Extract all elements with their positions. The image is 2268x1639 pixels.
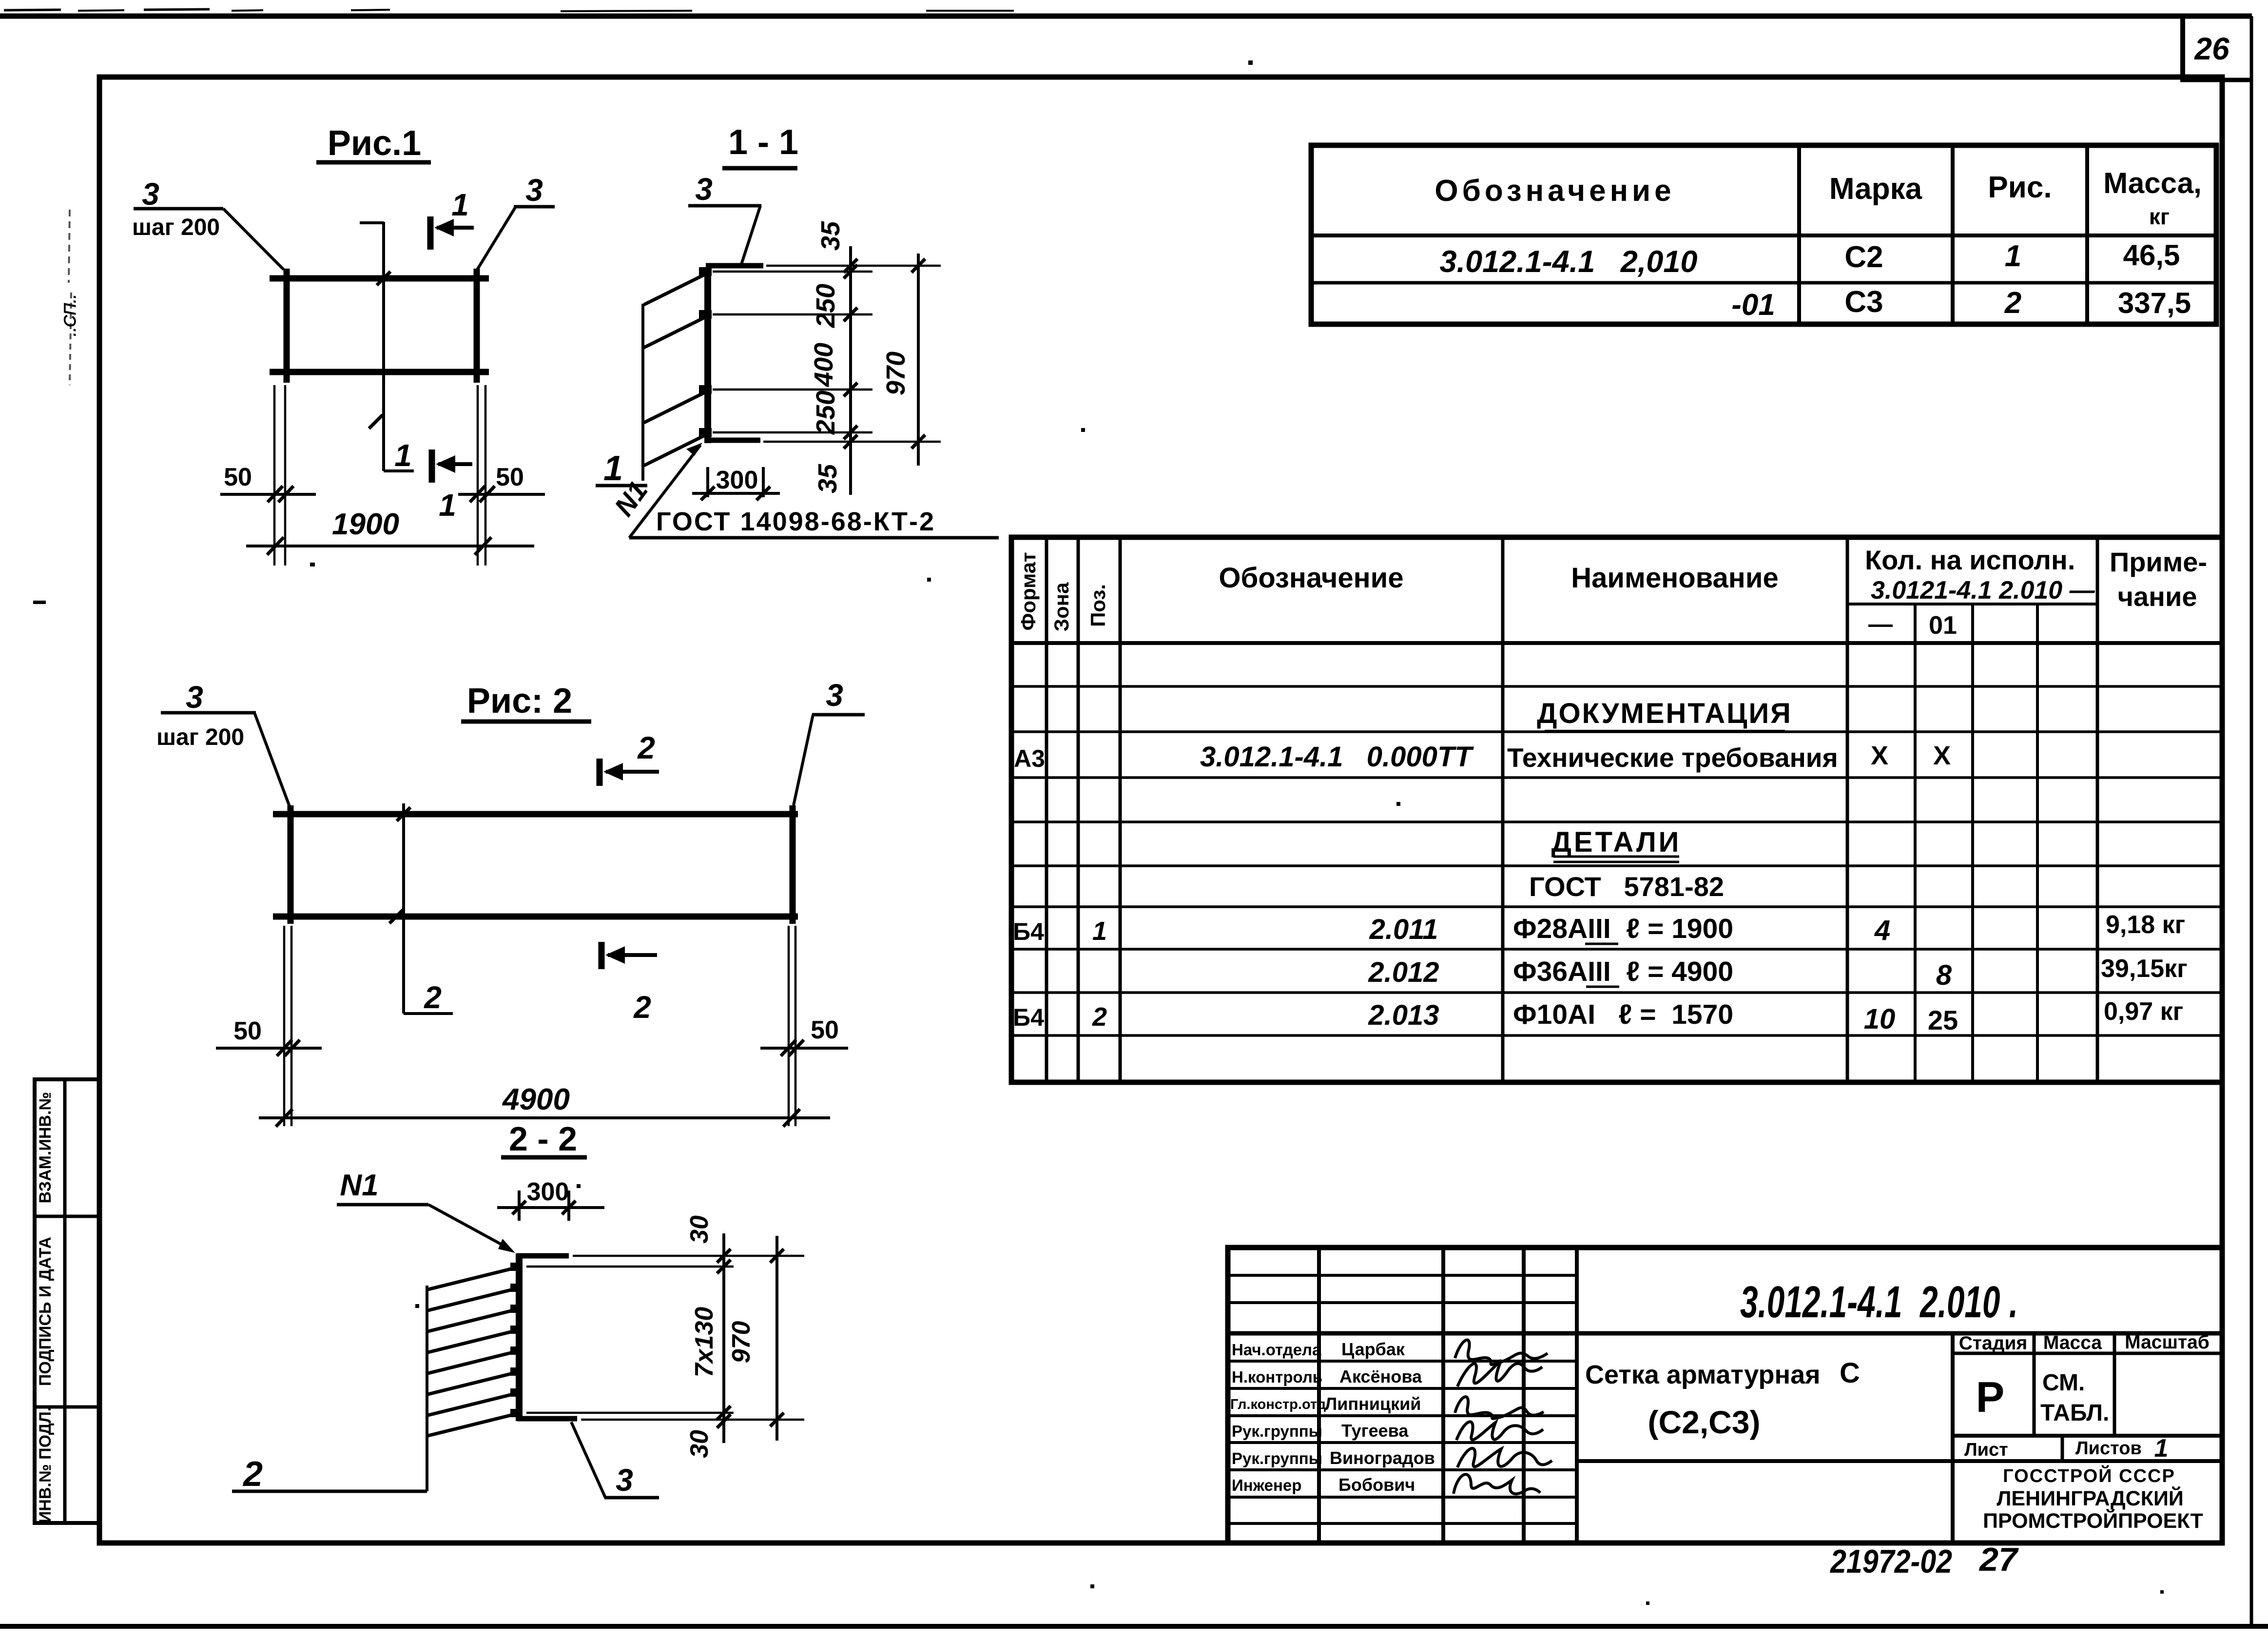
svg-text:337,5: 337,5 [2118,287,2191,319]
svg-text:С3: С3 [1844,285,1883,319]
svg-text:Лист: Лист [1964,1440,2008,1460]
svg-text:2 - 2: 2 - 2 [509,1120,577,1158]
svg-text:2.012: 2.012 [1368,956,1439,988]
svg-text:ИНВ.№ ПОДЛ.: ИНВ.№ ПОДЛ. [36,1407,55,1523]
svg-text:400: 400 [809,343,838,387]
svg-text:3.012.1-4.1 2,010: 3.012.1-4.1 2,010 [1440,245,1698,279]
svg-text:ДЕТАЛИ: ДЕТАЛИ [1551,826,1682,858]
svg-text:ГОСТ 14098-68-КТ-2: ГОСТ 14098-68-КТ-2 [656,507,935,536]
svg-text:1 - 1: 1 - 1 [728,123,798,162]
svg-text:Ф28АIII ℓ = 1900: Ф28АIII ℓ = 1900 [1513,913,1733,944]
svg-text:ГОСТ 5781-82: ГОСТ 5781-82 [1529,871,1724,902]
svg-text:Рис.: Рис. [1988,171,2052,204]
svg-text:1: 1 [1092,917,1107,946]
svg-text:50: 50 [224,463,252,491]
svg-text:Царбак: Царбак [1341,1339,1405,1359]
svg-text:чание: чание [2117,581,2197,612]
svg-text:ГОССТРОЙ СССР: ГОССТРОЙ СССР [2003,1464,2175,1486]
svg-text:1: 1 [603,449,623,488]
svg-text:Рис.1: Рис.1 [328,124,421,163]
svg-text:35: 35 [813,464,842,493]
svg-text:Тугеева: Тугеева [1341,1421,1409,1441]
svg-text:А3: А3 [1014,745,1045,772]
svg-text:ВЗАМ.ИНВ.№: ВЗАМ.ИНВ.№ [36,1092,55,1204]
svg-text:Поз.: Поз. [1086,584,1109,627]
svg-text:1: 1 [2154,1434,2169,1463]
svg-text:0,97 кг: 0,97 кг [2104,997,2183,1026]
svg-text:Б4: Б4 [1013,918,1044,945]
svg-text:3: 3 [142,176,159,212]
svg-text:С: С [1840,1357,1860,1389]
svg-text:3.012.1-4.1 2.010 .: 3.012.1-4.1 2.010 . [1740,1277,2018,1327]
svg-text:01: 01 [1929,611,1957,640]
svg-text:46,5: 46,5 [2123,239,2180,272]
svg-text:—: — [1868,610,1893,638]
svg-text:1: 1 [439,488,456,523]
svg-text:2.011: 2.011 [1369,914,1438,945]
svg-text:3: 3 [525,173,543,208]
svg-text:Х: Х [1933,741,1951,770]
svg-text:Р: Р [1976,1373,2005,1421]
svg-text:Наименование: Наименование [1571,562,1779,594]
svg-text:ДОКУМЕНТАЦИЯ: ДОКУМЕНТАЦИЯ [1537,698,1792,729]
svg-text:Нач.отдела: Нач.отдела [1232,1341,1321,1359]
svg-text:2: 2 [2004,286,2021,320]
svg-text:2.013: 2.013 [1368,999,1439,1031]
svg-text:Инженер: Инженер [1232,1476,1301,1494]
svg-text:Приме-: Приме- [2110,546,2207,577]
svg-text:300: 300 [716,466,758,494]
svg-text:39,15кг: 39,15кг [2101,955,2188,983]
svg-text:Стадия: Стадия [1959,1333,2027,1354]
svg-text:50: 50 [811,1016,839,1044]
svg-text:4900: 4900 [502,1083,570,1116]
svg-text:кг: кг [2149,204,2170,229]
svg-text:8: 8 [1936,959,1952,991]
svg-text:Рис: 2: Рис: 2 [467,682,572,721]
svg-text:1: 1 [451,187,469,222]
svg-text:Сетка арматурная: Сетка арматурная [1585,1360,1821,1389]
svg-text:Технические требования: Технические требования [1507,742,1838,773]
svg-text:ЛЕНИНГРАДСКИЙ: ЛЕНИНГРАДСКИЙ [1997,1486,2184,1510]
svg-text:7x130: 7x130 [690,1307,718,1378]
svg-text:25: 25 [1928,1005,1958,1035]
svg-text:N1: N1 [340,1169,378,1202]
svg-text:Липницкий: Липницкий [1325,1394,1421,1414]
svg-text:10: 10 [1864,1003,1896,1035]
svg-text:Ф36АIII ℓ = 4900: Ф36АIII ℓ = 4900 [1513,956,1733,987]
svg-text:Масса: Масса [2043,1332,2102,1353]
svg-text:26: 26 [2194,31,2229,66]
svg-text:Масса,: Масса, [2103,167,2202,199]
svg-text:27: 27 [1978,1541,2019,1578]
svg-text:2: 2 [424,980,442,1015]
svg-text:35: 35 [816,221,845,251]
svg-text:Гл.констр.отд: Гл.констр.отд [1230,1397,1326,1412]
svg-text:50: 50 [496,463,524,491]
svg-text:Бобович: Бобович [1338,1475,1415,1495]
svg-text:970: 970 [881,351,911,395]
svg-text:(С2,С3): (С2,С3) [1648,1404,1760,1440]
svg-text:3: 3 [186,680,203,715]
svg-text:4: 4 [1874,915,1890,946]
svg-text:50: 50 [233,1017,262,1045]
svg-text:Н.контроль: Н.контроль [1232,1368,1322,1386]
svg-text:Листов: Листов [2075,1438,2142,1459]
svg-text:Виноградов: Виноградов [1330,1448,1435,1468]
svg-text:..СП..: ..СП.. [61,294,79,336]
svg-text:Рук.группы: Рук.группы [1232,1449,1322,1467]
svg-text:2: 2 [242,1455,263,1494]
svg-text:250: 250 [811,284,840,328]
svg-text:3: 3 [695,172,713,207]
svg-text:3: 3 [826,678,843,713]
svg-text:ПОДПИСЬ И ДАТА: ПОДПИСЬ И ДАТА [36,1237,55,1386]
svg-text:шаг 200: шаг 200 [132,215,220,240]
svg-text:Масштаб: Масштаб [2125,1332,2210,1353]
svg-text:Б4: Б4 [1013,1004,1044,1031]
svg-text:Рук.группы: Рук.группы [1232,1422,1322,1440]
svg-text:9,18 кг: 9,18 кг [2106,911,2185,939]
svg-text:С2: С2 [1844,240,1883,274]
svg-text:Кол. на исполн.: Кол. на исполн. [1865,545,2075,575]
svg-text:-01: -01 [1731,288,1775,322]
svg-text:Ф10АI ℓ = 1570: Ф10АI ℓ = 1570 [1513,999,1733,1030]
svg-text:Х: Х [1871,741,1888,770]
svg-text:2: 2 [637,730,655,765]
svg-text:Формат: Формат [1017,552,1040,630]
svg-text:3.0121-4.1 2.010 —: 3.0121-4.1 2.010 — [1871,576,2095,605]
svg-text:1900: 1900 [332,507,399,541]
svg-text:2: 2 [1092,1002,1107,1032]
svg-text:2: 2 [633,990,651,1025]
svg-text:970: 970 [727,1321,756,1364]
svg-text:шаг 200: шаг 200 [156,724,244,750]
svg-text:21972-02: 21972-02 [1829,1543,1952,1580]
svg-text:ТАБЛ.: ТАБЛ. [2040,1400,2109,1426]
svg-text:СМ.: СМ. [2042,1370,2085,1396]
svg-text:1: 1 [394,438,412,473]
svg-text:Обозначение: Обозначение [1219,562,1403,594]
svg-text:Обозначение: Обозначение [1434,174,1675,208]
svg-text:1: 1 [2005,239,2021,273]
svg-text:3: 3 [616,1463,633,1498]
svg-text:300: 300 [527,1178,569,1206]
svg-text:Аксёнова: Аксёнова [1339,1366,1422,1386]
svg-text:30: 30 [685,1430,714,1458]
svg-text:ПРОМСТРОЙПРОЕКТ: ПРОМСТРОЙПРОЕКТ [1983,1509,2203,1533]
svg-text:Зона: Зона [1050,582,1073,631]
svg-text:Марка: Марка [1829,172,1922,206]
svg-text:30: 30 [685,1215,714,1244]
svg-text:3.012.1-4.1 0.000ТТ: 3.012.1-4.1 0.000ТТ [1200,741,1474,773]
svg-text:250: 250 [811,390,840,435]
